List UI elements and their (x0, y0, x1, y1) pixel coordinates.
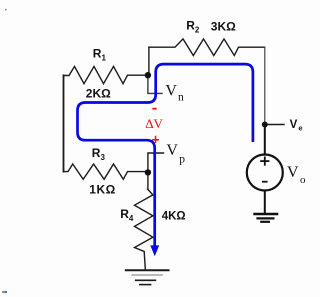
wire: Ve node to source top (264, 125, 266, 155)
blue current arrow (150, 245, 159, 256)
red minus of ΔV (152, 108, 156, 110)
voltage source Vo (247, 155, 283, 191)
wire: junction up to R2 (148, 47, 150, 75)
ground under source (253, 214, 278, 222)
svg-text:R4: R4 (120, 207, 134, 223)
svg-text:R3: R3 (92, 146, 106, 162)
svg-text:Vo: Vo (287, 164, 306, 186)
stray RGB mark bottom-left (2, 291, 7, 293)
red plus of ΔV (152, 136, 159, 143)
wire: Ve stub (265, 124, 284, 126)
stray dot top-left (5, 9, 7, 11)
resistor R2 (149, 39, 265, 56)
resistor R3 (64, 164, 148, 179)
svg-text:Ve: Ve (290, 119, 303, 133)
svg-text:ΔV: ΔV (145, 116, 163, 131)
svg-text:R2: R2 (186, 19, 200, 35)
svg-text:1KΩ: 1KΩ (89, 182, 115, 196)
wire: left rail (63, 75, 65, 171)
svg-text:2KΩ: 2KΩ (86, 87, 111, 101)
node: R1 right junction (145, 72, 151, 78)
svg-text:Vp: Vp (166, 142, 185, 166)
svg-text:Vn: Vn (165, 83, 184, 104)
wire: blue KVL loop (78, 64, 253, 246)
resistor R1 (64, 66, 148, 83)
wire: source to ground lead (264, 191, 266, 214)
ground under R4 (125, 270, 170, 284)
node Ve (262, 122, 268, 128)
wire: right vertical from R2 down to source (264, 47, 266, 124)
resistor R4 (135, 189, 153, 269)
node: R3/R4 junction (145, 169, 151, 175)
wire: Vp stub (148, 153, 164, 189)
svg-text:3KΩ: 3KΩ (211, 19, 236, 33)
svg-text:R1: R1 (93, 47, 107, 63)
svg-text:4KΩ: 4KΩ (162, 210, 186, 222)
wire: Vn stub (148, 75, 162, 93)
